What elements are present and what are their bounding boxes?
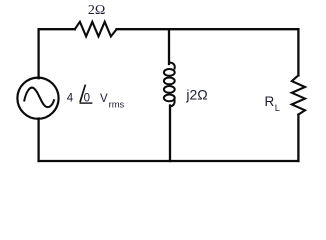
svg-text:L: L (275, 103, 280, 113)
wire top-left (source top to top rail) (39, 29, 75, 78)
wire right branch top (297, 29, 299, 75)
inductor L1 loop 4 (164, 95, 175, 102)
resistor R1 2ohm zigzag (75, 22, 117, 37)
angle symbol slash (80, 85, 85, 103)
inductor L1 loop 2 (164, 78, 175, 85)
svg-text:4: 4 (67, 92, 74, 104)
angle symbol underline (80, 102, 93, 104)
source V1 circle (17, 78, 58, 119)
svg-text:2Ω: 2Ω (88, 3, 105, 18)
svg-text:R: R (265, 94, 275, 109)
inductor L1 bottom hook (170, 100, 174, 107)
inductor L1 loop 3 (164, 86, 175, 93)
wire top rail right of resistor (117, 28, 299, 30)
resistor RL zigzag (292, 75, 305, 114)
wire middle branch bottom (169, 106, 171, 162)
svg-text:V: V (100, 93, 108, 105)
wire bottom rail (39, 160, 299, 162)
source V1 sine wave (24, 88, 54, 107)
inductor L1 top hook (169, 63, 175, 69)
svg-text:j2Ω: j2Ω (185, 86, 207, 102)
inductor L1 loop 1 (164, 69, 175, 76)
wire right branch bottom (297, 115, 299, 161)
wire middle branch top (168, 29, 170, 64)
wire source bottom (37, 119, 39, 162)
svg-text:rms: rms (109, 98, 125, 109)
